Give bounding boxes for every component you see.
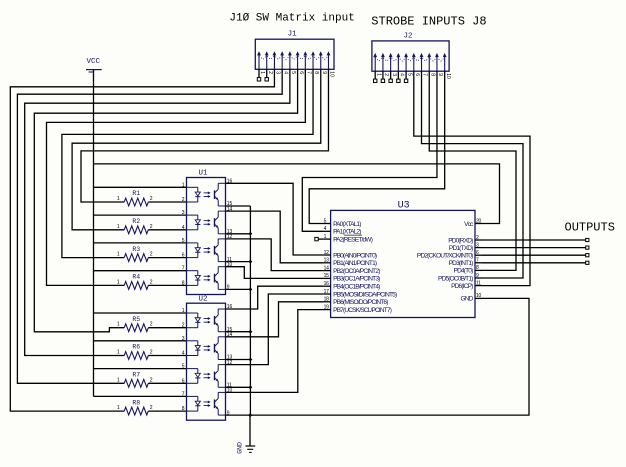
U3 pin 19 PB7(UCSK/SCL/PCINT7) <box>324 309 331 311</box>
svg-text:J2: J2 <box>403 32 412 40</box>
svg-text:6: 6 <box>182 378 185 384</box>
svg-text:R7: R7 <box>132 372 140 379</box>
svg-text:1: 1 <box>182 182 185 188</box>
wire U2 pin12 to U3 PB5 <box>226 294 324 365</box>
U1 opto channel 3 <box>187 242 198 244</box>
U3 pin 13 PB1(AIN1/PCINT1) <box>324 262 331 264</box>
U3 pin 9 PD5(OC0B/T1) <box>475 277 482 279</box>
svg-text:6: 6 <box>182 253 185 259</box>
wire U2 pin10 to U3 PB7 <box>226 310 324 393</box>
output line PD2(CKOUT/XCK/INT0) <box>482 254 586 256</box>
svg-text:PD6(ICP): PD6(ICP) <box>451 283 473 290</box>
svg-text:J1Ø SW Matrix input: J1Ø SW Matrix input <box>229 13 354 25</box>
wire U1 emitter 13 to bus <box>226 233 251 235</box>
U3 package box <box>331 210 475 317</box>
svg-text:2: 2 <box>182 197 185 203</box>
U3 pin 15 PB3(OC1A/PCINT3) <box>324 277 331 279</box>
svg-text:1: 1 <box>182 308 185 314</box>
J1 pin1 no-connect stub <box>258 69 260 77</box>
svg-text:2: 2 <box>150 224 153 230</box>
U3 PA2 no-connect square <box>315 237 318 240</box>
J2 pin4 no-connect stub <box>397 71 399 79</box>
VCC tap to opto anode row 7 <box>94 368 187 370</box>
svg-text:1: 1 <box>117 350 120 356</box>
svg-text:PA2(RESET/dW): PA2(RESET/dW) <box>333 236 373 243</box>
resistor R2 <box>124 226 148 234</box>
U1 opto channel 2 <box>187 214 198 216</box>
J1 pin2 no-connect stub <box>266 69 268 77</box>
wire U1 pin16 to U3 PB0 <box>226 183 324 255</box>
U3 pin 12 PB0(AIN0/PCINT0) <box>324 254 331 256</box>
svg-text:11: 11 <box>476 280 481 286</box>
wire J1 pin5 to R6 <box>25 69 290 355</box>
resistor R3 <box>124 254 148 262</box>
svg-text:18: 18 <box>324 297 329 303</box>
svg-text:2: 2 <box>150 377 153 383</box>
svg-text:6: 6 <box>298 71 304 74</box>
svg-text:19: 19 <box>324 304 329 310</box>
svg-text:8: 8 <box>182 406 185 412</box>
svg-text:3: 3 <box>391 73 397 76</box>
svg-text:PD1(TXD): PD1(TXD) <box>449 245 473 252</box>
svg-text:20: 20 <box>476 218 481 224</box>
svg-text:5: 5 <box>406 73 412 76</box>
svg-text:STROBE INPUTS J8: STROBE INPUTS J8 <box>371 14 486 28</box>
wire J1 pin7 to R4 <box>47 69 306 285</box>
svg-text:1: 1 <box>117 377 120 383</box>
wire J1 pin9 to R2 <box>72 69 321 230</box>
wire U1 pin10 to U3 PB3 <box>226 267 324 279</box>
wire J1 pin8 to R3 <box>62 69 313 257</box>
wire U1 emitter 15 to bus <box>226 205 251 207</box>
svg-text:PB3(OC1A/PCINT3): PB3(OC1A/PCINT3) <box>333 276 380 283</box>
wire U2 pin16 to U3 PB4 <box>226 286 324 309</box>
svg-text:2: 2 <box>150 196 153 202</box>
VCC tap to opto anode row 5 <box>94 312 187 314</box>
svg-text:1: 1 <box>117 252 120 258</box>
svg-text:7: 7 <box>422 73 428 76</box>
svg-text:2: 2 <box>267 71 273 74</box>
U3 pin 11 PD6(ICP) <box>475 285 482 287</box>
svg-text:1: 1 <box>117 322 120 328</box>
wire J1 pin10 to R1 <box>81 69 328 202</box>
U3 pin 20 Vcc <box>475 223 482 225</box>
svg-text:14: 14 <box>324 265 329 271</box>
svg-text:10: 10 <box>476 293 481 299</box>
VCC tap to opto anode row 2 <box>94 214 187 216</box>
U1 opto channel 1 <box>187 186 198 188</box>
svg-text:8: 8 <box>313 71 319 74</box>
wire U2 emitter 13 to bus <box>226 359 251 361</box>
svg-text:R3: R3 <box>132 246 140 253</box>
svg-text:PB1(AIN1/PCINT1): PB1(AIN1/PCINT1) <box>333 260 377 267</box>
junction <box>249 358 253 362</box>
wire J2 pin10 to U3 PA0 <box>309 71 444 223</box>
connector J1 <box>255 39 334 69</box>
svg-text:2: 2 <box>182 323 185 329</box>
svg-text:PB6(MISO/DO/PCINT6): PB6(MISO/DO/PCINT6) <box>333 299 388 306</box>
U3 pin 3 PD1(TXD) <box>475 247 482 249</box>
svg-text:8: 8 <box>429 73 435 76</box>
svg-text:PB5(MOSI/DI/SDA/PCINT5): PB5(MOSI/DI/SDA/PCINT5) <box>333 291 397 298</box>
wire GND drop <box>249 415 251 446</box>
svg-text:2: 2 <box>150 252 153 258</box>
svg-text:R2: R2 <box>132 218 140 225</box>
VCC tap to opto anode row 1 <box>94 186 187 188</box>
U1 opto channel 4 <box>187 270 198 272</box>
svg-text:3: 3 <box>275 71 281 74</box>
svg-text:17: 17 <box>324 289 329 295</box>
svg-text:U3: U3 <box>398 200 410 211</box>
wire J2 pin9 to U3 PA1 <box>302 71 437 231</box>
svg-text:PA0(XTAL1): PA0(XTAL1) <box>333 221 361 228</box>
svg-text:2: 2 <box>150 350 153 356</box>
svg-text:1: 1 <box>375 73 381 76</box>
U2 opto channel 3 <box>187 368 198 370</box>
svg-text:VCC: VCC <box>87 58 101 66</box>
svg-text:GND: GND <box>237 442 244 454</box>
svg-text:1: 1 <box>117 405 120 411</box>
VCC tap to opto anode row 3 <box>94 242 187 244</box>
wire J1 pin3 to R8 <box>10 69 274 411</box>
VCC line to U3 Vcc pin <box>94 164 500 224</box>
J2 pin3 no-connect stub <box>390 71 392 79</box>
svg-text:6: 6 <box>414 73 420 76</box>
svg-text:PD5(OC0B/T1): PD5(OC0B/T1) <box>438 275 473 282</box>
junction <box>249 232 253 236</box>
resistor R8 <box>124 407 148 415</box>
svg-text:5: 5 <box>182 238 185 244</box>
svg-text:1: 1 <box>117 279 120 285</box>
U3 pin 7 PD3(INT1) <box>475 262 482 264</box>
connector J2 <box>372 41 449 71</box>
svg-text:13: 13 <box>324 258 329 264</box>
svg-text:5: 5 <box>290 71 296 74</box>
svg-text:7: 7 <box>182 266 185 272</box>
svg-text:R4: R4 <box>132 274 140 281</box>
U3 pin 5 PA0(XTAL1) <box>324 223 331 225</box>
junction <box>249 260 253 264</box>
wire J1 pin6 to R5 <box>34 69 297 332</box>
junction GND <box>249 413 253 417</box>
resistor R4 <box>124 282 148 290</box>
svg-text:12: 12 <box>324 250 329 256</box>
U3 pin 4 PA1(XTAL2) <box>324 230 331 232</box>
svg-text:2: 2 <box>383 73 389 76</box>
emitter bus vertical <box>249 206 251 415</box>
svg-text:7: 7 <box>306 71 312 74</box>
svg-text:4: 4 <box>182 225 185 231</box>
U1 package box <box>187 178 226 295</box>
output line PD1(TXD) <box>482 247 586 249</box>
U2 opto channel 4 <box>187 395 198 397</box>
svg-text:5: 5 <box>182 364 185 370</box>
svg-text:1: 1 <box>117 196 120 202</box>
U3 pin 16 PB4(OC1B/PCINT4) <box>324 285 331 287</box>
U3 pin 10 GND <box>475 297 482 299</box>
svg-text:R6: R6 <box>132 344 140 351</box>
svg-text:16: 16 <box>324 281 329 287</box>
J2 pin2 no-connect stub <box>382 71 384 79</box>
svg-text:2: 2 <box>150 279 153 285</box>
wire J2 pin6 to U3 PD6 <box>414 71 530 285</box>
svg-text:4: 4 <box>182 351 185 357</box>
resistor R7 <box>124 379 148 387</box>
svg-text:R5: R5 <box>132 316 140 323</box>
svg-text:3: 3 <box>182 336 185 342</box>
resistor R6 <box>124 352 148 360</box>
svg-text:PD0(RXD): PD0(RXD) <box>448 237 473 244</box>
J2 pin1 no-connect stub <box>374 71 376 79</box>
svg-text:4: 4 <box>399 73 405 76</box>
svg-text:PB7(UCSK/SCL/PCINT7): PB7(UCSK/SCL/PCINT7) <box>333 307 392 314</box>
svg-text:U1: U1 <box>198 170 208 178</box>
wire U2 emitter 11 to bus <box>226 386 251 388</box>
svg-text:1: 1 <box>259 71 265 74</box>
svg-text:PB4(OC1B/PCINT4): PB4(OC1B/PCINT4) <box>333 284 380 291</box>
U2 package box <box>187 303 226 420</box>
svg-text:PD4(T0): PD4(T0) <box>454 268 474 275</box>
wire J1 pin4 to R7 <box>17 69 282 383</box>
svg-text:PD2(CKOUT/XCK/INT0): PD2(CKOUT/XCK/INT0) <box>417 253 473 260</box>
svg-text:8: 8 <box>182 280 185 286</box>
svg-text:PA1(XTAL2): PA1(XTAL2) <box>333 229 361 236</box>
svg-text:R8: R8 <box>132 399 140 406</box>
VCC tap to opto anode row 8 <box>94 395 187 397</box>
output line PD0(RXD) <box>482 239 586 241</box>
VCC tap to opto anode row 4 <box>94 270 187 272</box>
svg-text:GND: GND <box>460 296 473 303</box>
svg-text:7: 7 <box>182 391 185 397</box>
ground symbol <box>246 445 256 447</box>
wire U1 pin14 to U3 PB1 <box>226 211 324 263</box>
VCC tap to opto anode row 6 <box>94 340 187 342</box>
U3 pin 2 PD0(RXD) <box>475 239 482 241</box>
wire J2 pin8 to U3 PD4 <box>429 71 516 270</box>
svg-text:2: 2 <box>150 322 153 328</box>
svg-text:R1: R1 <box>132 190 140 197</box>
U3 pin 1 PA2(RESET/dW) <box>324 238 331 240</box>
output line PD3(INT1) <box>482 262 586 264</box>
svg-text:9: 9 <box>321 71 327 74</box>
svg-text:3: 3 <box>182 210 185 216</box>
resistor R1 <box>124 198 148 206</box>
svg-text:9: 9 <box>437 73 443 76</box>
J2 pin5 no-connect stub <box>405 71 407 79</box>
wire U2 pin9 / GND line <box>226 298 530 415</box>
junction <box>249 288 253 292</box>
svg-text:10: 10 <box>445 73 451 79</box>
svg-text:10: 10 <box>329 71 335 77</box>
svg-text:PB0(AIN0/PCINT0): PB0(AIN0/PCINT0) <box>333 252 377 259</box>
junction <box>249 385 253 389</box>
svg-text:2: 2 <box>150 405 153 411</box>
U3 pin 17 PB5(MOSI/DI/SDA/PCINT5) <box>324 293 331 295</box>
wire J2 pin7 to U3 PD5 <box>422 71 523 278</box>
U2 opto channel 1 <box>187 312 198 314</box>
resistor R5 <box>124 324 148 332</box>
U3 pin 14 PB2(OC0A/PCINT2) <box>324 270 331 272</box>
svg-text:PD3(INT1): PD3(INT1) <box>449 260 473 267</box>
U3 pin 8 PD4(T0) <box>475 269 482 271</box>
wire U1 emitter 11 to bus <box>226 261 251 263</box>
svg-text:1: 1 <box>117 224 120 230</box>
wire U2 pin14 to U3 PB6 <box>226 302 324 337</box>
svg-text:OUTPUTS: OUTPUTS <box>565 220 615 234</box>
wire U2 emitter 15 to bus <box>226 331 251 333</box>
svg-text:4: 4 <box>282 71 288 74</box>
U3 pin 18 PB6(MISO/DO/PCINT6) <box>324 301 331 303</box>
svg-text:U2: U2 <box>198 295 207 303</box>
VCC rail vertical <box>93 70 95 397</box>
junction <box>249 330 253 334</box>
svg-text:J1: J1 <box>288 31 298 39</box>
U3 pin 6 PD2(CKOUT/XCK/INT0) <box>475 254 482 256</box>
wire U1 emitter 9 to bus <box>226 288 251 290</box>
U2 opto channel 2 <box>187 340 198 342</box>
svg-text:PB2(OC0A/PCINT2): PB2(OC0A/PCINT2) <box>333 268 380 275</box>
svg-text:15: 15 <box>324 273 329 279</box>
wire U1 pin12 to U3 PB2 <box>226 239 324 271</box>
